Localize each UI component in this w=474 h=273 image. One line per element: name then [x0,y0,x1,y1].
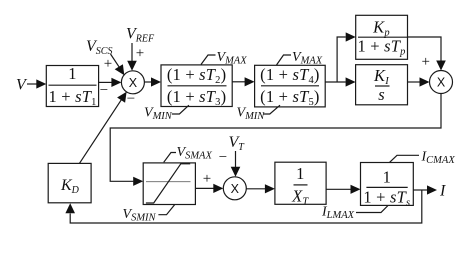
svg-text:−: − [127,91,135,107]
svg-text:X: X [129,76,138,90]
svg-text:1: 1 [68,64,76,83]
elbow I_LMAX [356,206,388,213]
wire XT to Ts block [326,185,360,194]
wire T4 to KI with branch up to Kp [325,32,356,86]
block T1 [46,66,98,107]
svg-text:+: + [421,54,429,70]
svg-text:1 + sTs: 1 + sTs [363,188,410,209]
wire Ts to I output [413,185,437,194]
svg-text:s: s [378,85,385,104]
wire V_SCS [111,54,125,75]
block T4 T5 [255,65,326,107]
svg-text:I: I [439,183,446,200]
elbow V_MAX block2 [201,55,216,65]
wire S1 to T2 block [144,77,161,86]
wire T2 to T4 block [232,77,254,86]
block T2 T3 [161,65,232,107]
svg-text:1: 1 [383,168,391,187]
elbow V_MIN block3 [263,105,280,114]
summing junction S3 [223,177,246,200]
wire feedback I to KD [65,190,421,223]
svg-text:+: + [136,46,144,62]
limiter midline [146,181,191,183]
wire V_REF [127,43,137,71]
wire V input [27,79,46,88]
wire limiter to S3 [195,184,223,193]
svg-text:X: X [437,76,446,90]
svg-text:−: − [100,83,108,99]
wire KD to S1 [80,92,127,164]
svg-text:1: 1 [296,164,304,183]
elbow V_MIN block2 [172,105,189,114]
svg-text:1 + sT1: 1 + sT1 [48,87,96,108]
wire Kp to S2 [408,37,446,71]
block KI [356,65,408,105]
block KD [48,163,91,202]
wire KI to S2 [408,77,430,86]
svg-text:−: − [219,150,227,166]
wire V_T [231,151,241,177]
limiter box [143,163,195,205]
elbow V_SMIN [158,205,174,215]
block XT [275,162,326,204]
elbow V_MAX block3 [277,55,292,65]
wire S2 to limiter [110,94,441,186]
elbow V_SMAX [164,153,176,163]
wire S3 to XT block [246,184,275,193]
svg-text:+: + [104,56,112,72]
wire T1 to S1 [99,78,122,87]
block Kp [356,15,408,59]
summing junction S2 [430,71,453,94]
svg-text:1 + sTp: 1 + sTp [357,37,405,58]
svg-text:X: X [231,182,240,196]
limiter saturation curve [146,164,190,203]
svg-text:+: + [203,171,211,187]
elbow I_CMAX [390,155,420,162]
summing junction S1 [121,71,144,94]
block Ts [361,163,414,206]
